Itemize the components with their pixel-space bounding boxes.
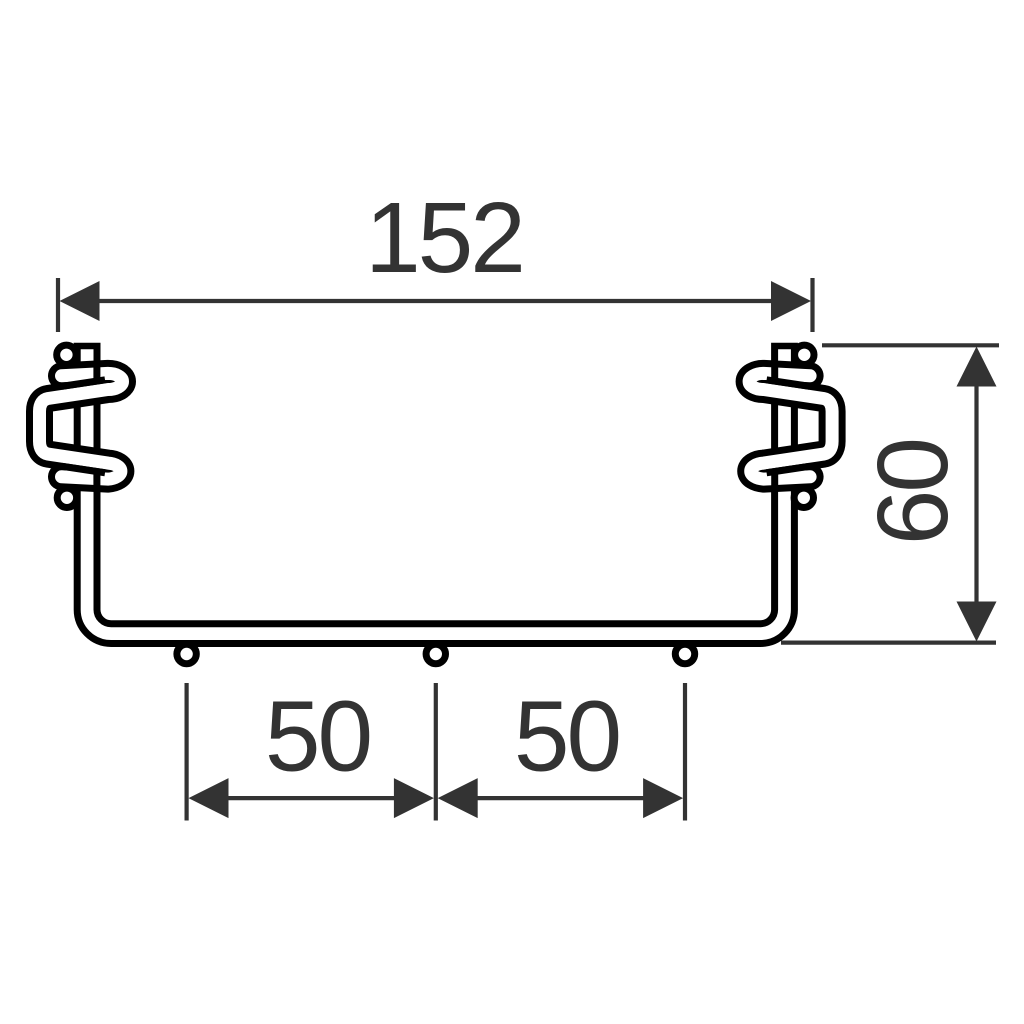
right rim clip band (mirrored) [749,361,832,491]
height dimension 60: bottom arrowhead [957,602,997,642]
top-right rim wire circle [795,345,814,364]
width dimension 152: right arrowhead [771,281,811,321]
svg-text:60: 60 [857,440,969,545]
bottom mesh wire circle middle [426,644,445,663]
right 50 dimension: left arrowhead [438,778,478,818]
bottom-left rim wire circle [57,488,76,507]
bottom mesh wire circle left [177,644,196,663]
left 50 dimension: left arrowhead [189,778,229,818]
bottom-right rim wire circle [794,488,813,507]
height dimension 60: rotated label [857,440,969,545]
top-left rim wire circle [57,345,76,364]
left 50 dimension: right arrowhead [394,778,434,818]
svg-text:50: 50 [265,681,370,793]
right 50 dimension: right arrowhead [643,778,683,818]
svg-text:152: 152 [365,182,523,294]
left rim clip band (woven transverse wire) [40,361,123,491]
height dimension 60: extension lines and dimension line [781,345,999,642]
bottom mesh wire circle right [675,644,694,663]
pitch dimensions 50/50: extension lines and dimension lines [187,683,685,821]
width dimension 152: extension lines and dimension line [58,278,813,332]
width dimension 152: left arrowhead [60,281,100,321]
tray U-profile: side wall wires and bottom wire (double-line outline) [87,343,784,634]
height dimension 60: top arrowhead [957,347,997,387]
svg-text:50: 50 [514,681,619,793]
